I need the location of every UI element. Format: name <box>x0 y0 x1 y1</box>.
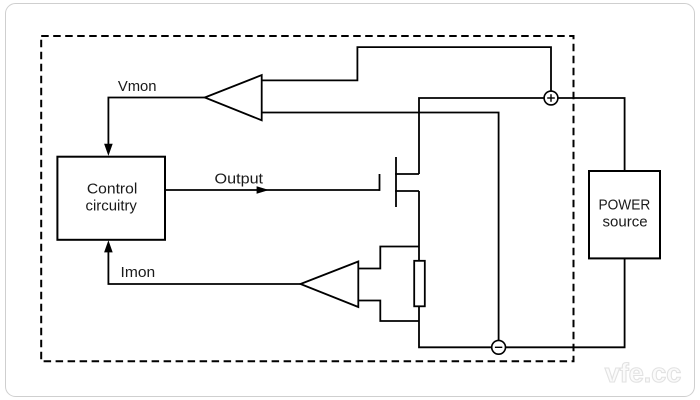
dashed enclosure: electronic load boundary <box>41 36 573 361</box>
wire: Vmon from voltage amplifier to control circuitry (arrow down) <box>104 98 205 156</box>
svg-text:vfe.cc: vfe.cc <box>605 358 682 388</box>
svg-text:Imon: Imon <box>121 265 156 281</box>
control circuitry block <box>57 157 165 240</box>
svg-text:Output: Output <box>215 170 264 187</box>
op-amp voltage monitor buffer <box>205 75 262 120</box>
svg-text:source: source <box>603 215 648 231</box>
wire: Imon from current amplifier to control circuitry (arrow up) <box>104 240 300 284</box>
wire: current sense top input <box>358 247 419 269</box>
svg-text:POWER: POWER <box>599 197 651 213</box>
wire: source to shunt resistor <box>418 191 420 261</box>
svg-text:Vmon: Vmon <box>118 79 157 95</box>
power source block <box>589 171 660 258</box>
wire: voltage sense from - node to amplifier bottom input <box>262 113 499 348</box>
op-amp current monitor <box>301 262 359 308</box>
wire: current sense bottom input <box>358 301 419 322</box>
plus terminal <box>544 91 558 105</box>
MOSFET pass transistor <box>380 157 420 207</box>
shunt resistor <box>414 261 425 307</box>
wire: output gate drive with arrowhead <box>165 186 380 193</box>
wire: + node to power source top <box>551 98 625 171</box>
svg-text:circuitry: circuitry <box>86 198 138 214</box>
wire: shunt bottom to - node and power source bottom <box>419 258 625 347</box>
minus terminal <box>492 340 506 354</box>
wire: drain to + node <box>419 98 551 174</box>
svg-text:Control: Control <box>87 181 138 197</box>
wire: voltage sense loop from + node to amplifier top input <box>262 47 551 98</box>
